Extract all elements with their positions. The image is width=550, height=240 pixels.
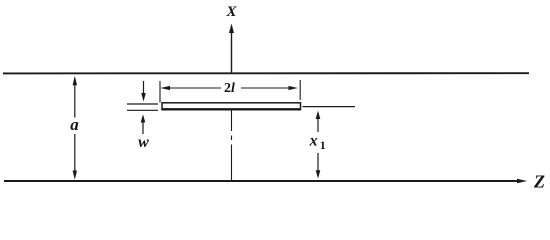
svg-text:1: 1 (320, 138, 326, 152)
dimension x1 bottom arrowhead (316, 170, 321, 178)
dimension x1 line lower segment (317, 153, 319, 175)
dimension a bottom arrowhead (73, 171, 77, 180)
X axis arrowhead (229, 24, 234, 34)
strip conductor (162, 103, 301, 110)
svg-text:a: a (70, 115, 79, 134)
svg-text:Z: Z (533, 172, 545, 192)
dimension w lower arrow (up) (142, 121, 144, 134)
dimension 2l left arrow (167, 87, 221, 89)
dimension 2l right arrow (241, 87, 292, 89)
strip bottom thick edge (162, 108, 301, 110)
top plate line (3, 72, 529, 74)
dimension 2l left tick (159, 81, 161, 103)
svg-text:2l: 2l (224, 81, 235, 96)
center dash-dot line (231, 110, 233, 131)
dimension w bottom extension line (127, 109, 158, 111)
Z axis arrowhead (517, 179, 527, 184)
dimension w upper arrow (down) (143, 81, 145, 95)
dimension w top extension line (127, 103, 158, 105)
svg-text:x: x (309, 132, 318, 149)
X axis line (231, 29, 233, 73)
dimension x1 top arrowhead (316, 111, 321, 119)
dimension a top arrowhead (73, 76, 77, 85)
dimension 2l right tick (299, 80, 301, 100)
svg-text:X: X (225, 4, 237, 20)
dimension a line lower segment (74, 134, 76, 176)
dimension x1 line upper segment (317, 114, 319, 132)
dimension x1 extension line (303, 106, 356, 108)
svg-text:w: w (138, 134, 149, 151)
dimension a line upper segment (74, 78, 76, 118)
bottom plate line (4, 180, 518, 182)
